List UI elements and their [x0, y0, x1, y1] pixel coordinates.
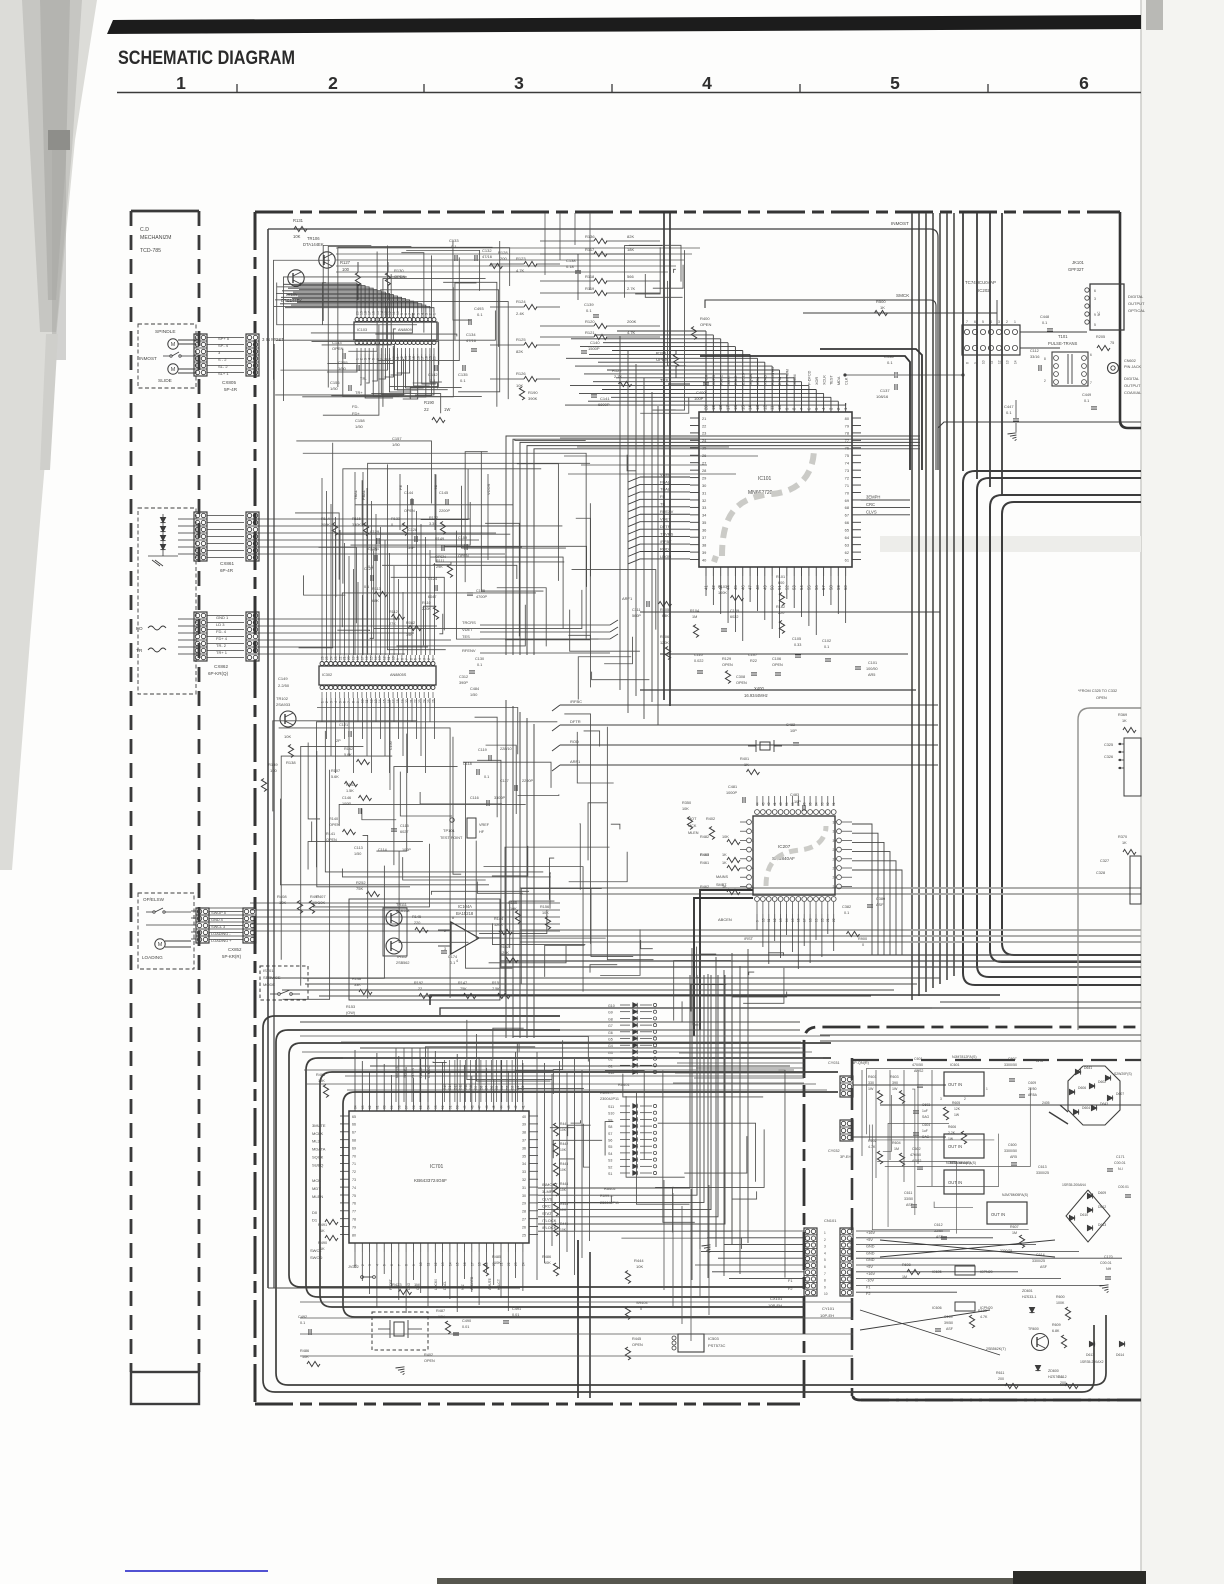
svg-text:40: 40 — [522, 1115, 526, 1119]
wire — [331, 255, 431, 395]
wire — [475, 717, 498, 817]
svg-text:29: 29 — [702, 475, 706, 480]
deep loop 1 — [276, 1030, 1106, 1385]
loop top extra wires — [360, 1047, 800, 1049]
svg-text:SPINDLE: SPINDLE — [155, 329, 176, 335]
svg-text:AR5: AR5 — [868, 673, 875, 677]
svg-text:SL- 2: SL- 2 — [218, 364, 228, 369]
svg-text:R487: R487 — [436, 1309, 445, 1313]
diode D610 — [1069, 1215, 1074, 1220]
svg-text:GND: GND — [866, 1251, 875, 1255]
svg-text:22: 22 — [507, 1262, 511, 1266]
svg-text:OUTPUT: OUTPUT — [1124, 383, 1141, 388]
svg-text:0.1: 0.1 — [477, 312, 483, 317]
wire — [253, 618, 310, 620]
svg-text:R900: R900 — [858, 937, 867, 941]
connector CX805 right half — [246, 334, 259, 376]
svg-text:1W: 1W — [868, 1087, 874, 1091]
grey horizontal bus lines — [520, 887, 1141, 889]
svg-text:C448: C448 — [1040, 315, 1049, 319]
svg-text:C159: C159 — [458, 536, 467, 540]
svg-text:CY032: CY032 — [828, 1149, 840, 1153]
wire — [300, 1355, 853, 1357]
svg-text:0.022: 0.022 — [694, 659, 704, 663]
wire — [492, 846, 528, 876]
svg-text:18: 18 — [396, 699, 400, 703]
svg-text:4: 4 — [990, 320, 992, 324]
IC302 top pin bundle — [321, 478, 323, 655]
svg-text:37: 37 — [522, 1139, 526, 1143]
wire — [621, 1238, 741, 1249]
svg-text:10K: 10K — [544, 1261, 551, 1265]
svg-text:1: 1 — [1014, 320, 1016, 324]
svg-text:10: 10 — [824, 1292, 828, 1296]
svg-text:1000P: 1000P — [726, 791, 737, 795]
svg-text:4: 4 — [375, 1264, 379, 1266]
svg-text:C.D: C.D — [140, 227, 149, 233]
svg-text:G4: G4 — [500, 1086, 504, 1090]
svg-text:R609: R609 — [1052, 1323, 1061, 1327]
left vertical trunk B — [273, 344, 275, 1288]
svg-text:C101: C101 — [868, 661, 877, 665]
wire — [699, 1202, 701, 1298]
wire — [283, 277, 406, 401]
wire — [786, 914, 788, 935]
svg-text:23: 23 — [702, 431, 706, 436]
wire — [1118, 767, 1124, 769]
component R082 19K — [409, 625, 422, 630]
svg-text:C128: C128 — [408, 528, 417, 532]
IC101 left pins — [690, 417, 699, 419]
svg-text:54: 54 — [427, 1105, 431, 1109]
svg-text:C613: C613 — [1038, 1165, 1047, 1169]
svg-text:69: 69 — [845, 498, 849, 503]
svg-text:1: 1 — [176, 73, 186, 93]
svg-text:5: 5 — [890, 73, 900, 93]
svg-text:TC74HCU04AP: TC74HCU04AP — [965, 280, 996, 285]
svg-text:39: 39 — [785, 802, 789, 806]
D613 D614 — [1089, 1341, 1094, 1346]
svg-text:HF: HF — [479, 830, 485, 834]
svg-text:13: 13 — [378, 656, 382, 660]
svg-text:35: 35 — [702, 520, 706, 525]
svg-text:68: 68 — [352, 1139, 356, 1143]
svg-text:39: 39 — [522, 1123, 526, 1127]
svg-text:1: 1 — [321, 701, 325, 703]
wire — [749, 972, 754, 975]
svg-text:10K: 10K — [560, 1148, 567, 1152]
wire — [522, 1252, 524, 1291]
svg-text:0: 0 — [862, 943, 864, 947]
svg-text:SAG: SAG — [922, 1115, 930, 1119]
svg-text:33: 33 — [702, 505, 706, 510]
trunk wire — [939, 213, 941, 984]
wire — [768, 914, 770, 964]
power border inner dashes — [853, 1059, 1141, 1061]
wire — [571, 1120, 581, 1123]
svg-text:JK101: JK101 — [1072, 260, 1085, 265]
component R132 3.3K — [440, 522, 445, 535]
svg-text:CLVS: CLVS — [866, 509, 877, 514]
wire — [619, 336, 621, 690]
svg-text:C158: C158 — [355, 418, 365, 423]
svg-text:D609: D609 — [1098, 1191, 1106, 1195]
svg-text:6: 6 — [752, 867, 754, 871]
diode D641 — [1075, 1069, 1080, 1074]
bus vertical wire — [1001, 213, 1003, 495]
CN101 bowtie diagonals — [880, 1240, 1055, 1257]
svg-text:8: 8 — [400, 658, 404, 660]
svg-text:56: 56 — [412, 1105, 416, 1109]
resistor R445 — [553, 1223, 558, 1236]
svg-text:2.7K: 2.7K — [614, 374, 623, 379]
svg-text:0.33: 0.33 — [794, 643, 801, 647]
wire — [583, 1124, 589, 1167]
svg-text:COAXIAL: COAXIAL — [1124, 390, 1142, 395]
svg-text:47/16: 47/16 — [482, 254, 493, 259]
wire bundle servo — [534, 449, 920, 655]
wire — [369, 1252, 371, 1294]
wire — [512, 706, 514, 1038]
svg-text:MAINS: MAINS — [716, 875, 728, 879]
component C124 6047 — [434, 585, 436, 591]
IC503 PST573C — [678, 1334, 704, 1352]
wire — [322, 274, 392, 345]
bus loop 2 — [977, 478, 1141, 977]
svg-text:12: 12 — [998, 360, 1002, 364]
svg-text:11: 11 — [990, 360, 994, 364]
wire — [833, 914, 835, 951]
svg-text:C382: C382 — [842, 905, 851, 909]
svg-text:49: 49 — [463, 1105, 467, 1109]
transistor TR106 — [319, 252, 335, 268]
svg-text:S - 2: S - 2 — [218, 357, 227, 362]
wire — [253, 532, 330, 534]
wire — [912, 1089, 915, 1215]
wire — [700, 954, 716, 1024]
wire — [433, 1061, 447, 1062]
svg-text:FO: FO — [136, 626, 143, 632]
wire — [682, 1001, 696, 1022]
svg-text:6800P: 6800P — [598, 402, 610, 407]
wire — [533, 724, 535, 1038]
wire — [464, 1252, 466, 1279]
IC207 bottom pins — [755, 897, 760, 902]
wire — [280, 799, 489, 885]
svg-text:66: 66 — [845, 520, 849, 525]
IC606 ICPN20 — [955, 1302, 975, 1311]
svg-text:1/50: 1/50 — [470, 693, 477, 697]
svg-text:52: 52 — [441, 1105, 445, 1109]
wire — [207, 636, 244, 638]
wire — [538, 975, 732, 1231]
wire — [300, 1035, 830, 1037]
wire — [484, 867, 584, 992]
svg-text:2200P: 2200P — [439, 509, 450, 513]
IC101 left signal fan — [640, 476, 690, 478]
wire — [566, 1072, 568, 1252]
wire — [660, 1047, 804, 1049]
svg-text:JV202: JV202 — [348, 1265, 359, 1269]
svg-text:G14: G14 — [448, 1084, 452, 1090]
svg-text:SCHEMATIC DIAGRAM: SCHEMATIC DIAGRAM — [118, 48, 295, 69]
svg-text:1M: 1M — [1012, 1231, 1017, 1235]
svg-text:51: 51 — [448, 1105, 452, 1109]
svg-text:R408: R408 — [277, 894, 287, 899]
svg-text:C139: C139 — [584, 302, 594, 307]
svg-text:BA15218: BA15218 — [456, 911, 474, 916]
wire — [398, 1252, 400, 1300]
wire — [268, 977, 940, 979]
svg-text:TEST POINT: TEST POINT — [440, 836, 463, 840]
wire — [545, 945, 585, 977]
wire — [515, 1252, 517, 1278]
svg-text:DBL0: DBL0 — [734, 376, 738, 386]
wire — [820, 1034, 1141, 1036]
svg-text:R124: R124 — [516, 299, 526, 304]
svg-text:C2PO: C2PO — [712, 375, 716, 385]
diode D643 — [1091, 1105, 1096, 1110]
svg-text:31: 31 — [832, 802, 836, 806]
wire — [207, 351, 244, 353]
svg-text:R112: R112 — [389, 610, 398, 614]
svg-text:C146: C146 — [342, 796, 351, 800]
svg-text:3300/50: 3300/50 — [1004, 1149, 1017, 1153]
svg-text:23: 23 — [514, 1262, 518, 1266]
component C127 0.1 — [370, 575, 372, 581]
diode D613 — [1087, 1225, 1092, 1230]
svg-text:46: 46 — [485, 1105, 489, 1109]
wire — [640, 398, 689, 414]
svg-text:XOR: XOR — [815, 377, 819, 385]
svg-text:27: 27 — [832, 867, 836, 871]
svg-text:26: 26 — [522, 1225, 526, 1229]
svg-text:R110: R110 — [422, 601, 431, 605]
svg-text:7: 7 — [405, 658, 409, 660]
wire — [917, 1134, 999, 1187]
wire — [731, 953, 733, 1245]
svg-text:67: 67 — [352, 1131, 356, 1135]
connector CX852 right — [243, 908, 256, 943]
trunk wire — [911, 213, 913, 1000]
wire — [691, 985, 726, 1012]
svg-text:C484: C484 — [470, 687, 479, 691]
svg-text:7: 7 — [752, 876, 754, 880]
wire — [299, 302, 508, 400]
main border bottom left part — [255, 1403, 800, 1406]
wire — [505, 700, 507, 1038]
svg-text:39: 39 — [702, 550, 706, 555]
pin jack CN602 — [1108, 363, 1119, 374]
svg-text:5.6K: 5.6K — [331, 775, 339, 779]
svg-text:MCLK: MCLK — [312, 1131, 323, 1136]
wire — [327, 346, 393, 364]
wire — [536, 1052, 538, 1280]
left vertical trunk A — [267, 229, 269, 1288]
wire — [607, 727, 653, 960]
svg-text:75: 75 — [352, 1194, 356, 1198]
svg-text:26: 26 — [832, 876, 836, 880]
IC207 left pins — [747, 820, 752, 825]
bus vertical wire — [976, 213, 978, 479]
svg-text:19K: 19K — [406, 633, 413, 637]
svg-text:R461: R461 — [700, 861, 709, 865]
diode D612 — [1087, 1207, 1092, 1212]
svg-text:S7: S7 — [608, 1132, 612, 1136]
wire — [568, 473, 736, 475]
component R113 68K — [375, 591, 388, 596]
svg-text:2: 2 — [964, 1097, 966, 1101]
wire — [493, 1028, 524, 1079]
transistor TR111 — [386, 910, 402, 926]
svg-text:31: 31 — [832, 830, 836, 834]
svg-text:24: 24 — [329, 656, 333, 660]
wire — [279, 728, 450, 998]
svg-text:33: 33 — [522, 1170, 526, 1174]
wire — [497, 588, 546, 647]
wire — [444, 546, 587, 587]
wire — [323, 245, 371, 321]
component C159 OPEN — [464, 544, 466, 550]
svg-text:D641: D641 — [1084, 1066, 1092, 1070]
svg-text:TR: TR — [136, 648, 143, 654]
resistor R126 10K — [524, 376, 537, 381]
bold verticals right of IC701 frame — [577, 1240, 579, 1398]
svg-text:R486: R486 — [300, 1349, 309, 1353]
wire SMCK — [705, 300, 936, 470]
svg-text:C143: C143 — [332, 340, 342, 345]
wire — [677, 1062, 804, 1064]
svg-text:R126: R126 — [516, 371, 526, 376]
svg-text:R370: R370 — [1118, 835, 1127, 839]
svg-text:28: 28 — [702, 468, 706, 473]
wire — [611, 824, 620, 829]
svg-text:42: 42 — [767, 802, 771, 806]
wire — [485, 1252, 487, 1272]
svg-text:26: 26 — [321, 656, 325, 660]
svg-text:R600: R600 — [1056, 1295, 1065, 1299]
svg-text:F1: F1 — [788, 1279, 792, 1283]
bridge diamond bottom — [1066, 1190, 1110, 1242]
svg-text:1: 1 — [824, 1231, 826, 1235]
transistor TR102 — [280, 711, 296, 727]
wire — [564, 714, 590, 944]
svg-text:8: 8 — [824, 1279, 826, 1283]
svg-text:1SR35-200AN4: 1SR35-200AN4 — [1062, 1183, 1086, 1187]
diode S2W20F(S) — [1105, 1075, 1110, 1080]
svg-text:T101: T101 — [1058, 334, 1068, 339]
wire — [362, 808, 396, 819]
pickup laser diodes — [160, 517, 165, 522]
wire — [657, 406, 659, 725]
svg-text:13: 13 — [441, 1262, 445, 1266]
wire — [809, 914, 811, 963]
wire — [780, 914, 782, 958]
wire — [253, 639, 310, 641]
svg-text:C137: C137 — [880, 388, 890, 393]
svg-text:1: 1 — [433, 313, 437, 315]
svg-text:DFTR: DFTR — [570, 719, 581, 724]
wire — [306, 1083, 816, 1085]
svg-text:R121: R121 — [585, 330, 595, 335]
wire — [592, 672, 650, 680]
wire — [339, 804, 526, 825]
svg-text:SMBT: SMBT — [716, 883, 727, 887]
svg-text:R482: R482 — [700, 835, 709, 839]
power bus loop 3 — [320, 1072, 838, 1307]
wire — [517, 464, 558, 581]
resistor R440 — [553, 1123, 558, 1136]
wire — [394, 767, 458, 866]
svg-text:C602: C602 — [912, 1147, 921, 1151]
wire — [694, 1077, 804, 1079]
IC101 top pins — [705, 403, 707, 412]
wire — [311, 313, 412, 333]
svg-text:R462: R462 — [700, 885, 709, 889]
svg-text:TE: TE — [433, 485, 438, 490]
svg-text:2: 2 — [328, 73, 338, 93]
svg-text:2: 2 — [1044, 379, 1046, 383]
IC103 bottom pin wires — [327, 354, 357, 372]
svg-text:C00.01: C00.01 — [1114, 1161, 1126, 1165]
component C125 4700P — [467, 592, 473, 594]
svg-text:5: 5 — [414, 658, 418, 660]
power bold diagonals — [1049, 1112, 1068, 1124]
svg-text:1/50: 1/50 — [330, 386, 339, 391]
svg-text:1W: 1W — [954, 1113, 960, 1117]
svg-text:XLDM: XLDM — [793, 374, 797, 385]
svg-text:SL+ 1: SL+ 1 — [218, 371, 229, 376]
wire — [623, 1074, 763, 1097]
wire — [747, 949, 749, 1243]
svg-text:10K: 10K — [722, 835, 729, 839]
svg-text:C609: C609 — [1028, 1081, 1036, 1085]
svg-text:C116: C116 — [470, 796, 479, 800]
svg-text:OUT IN: OUT IN — [991, 1212, 1005, 1217]
svg-text:C102: C102 — [822, 639, 831, 643]
wire — [578, 657, 631, 700]
svg-text:10K: 10K — [636, 1264, 643, 1269]
svg-text:66: 66 — [352, 1123, 356, 1127]
wire — [343, 469, 541, 584]
wire — [673, 1187, 674, 1232]
svg-text:0.1: 0.1 — [364, 585, 369, 589]
svg-text:C493: C493 — [474, 306, 484, 311]
svg-text:63: 63 — [845, 542, 849, 547]
svg-text:1/50: 1/50 — [354, 852, 361, 856]
svg-text:DACL: DACL — [443, 1281, 447, 1290]
wire — [756, 914, 758, 930]
svg-text:EXCL5: EXCL5 — [741, 373, 745, 385]
connector CY032 — [840, 1120, 853, 1141]
scanner margin right of page edge — [1141, 0, 1224, 1584]
wire — [559, 213, 561, 260]
wire — [347, 1089, 827, 1091]
svg-text:OPTICAL: OPTICAL — [1128, 308, 1146, 313]
svg-text:SQCK: SQCK — [312, 1155, 324, 1160]
svg-text:3300/25: 3300/25 — [1000, 1249, 1012, 1253]
wire — [693, 996, 698, 1025]
wire — [455, 283, 477, 340]
svg-text:5P-4R: 5P-4R — [224, 387, 238, 392]
svg-text:R611: R611 — [996, 1371, 1004, 1375]
svg-text:G7: G7 — [608, 1024, 613, 1028]
svg-text:TRCRS: TRCRS — [462, 620, 476, 625]
bus vertical wire — [962, 213, 964, 471]
svg-text:23004JP11: 23004JP11 — [600, 1097, 619, 1101]
wire — [403, 857, 486, 880]
loading motor M3 — [155, 939, 165, 949]
